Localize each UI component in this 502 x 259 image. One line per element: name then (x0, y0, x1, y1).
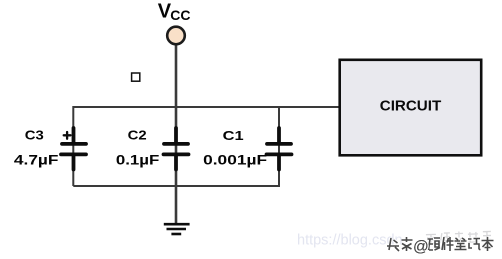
svg-text:CC: CC (170, 7, 190, 23)
svg-text:C3: C3 (25, 128, 44, 143)
svg-text:0.001µF: 0.001µF (203, 152, 267, 167)
svg-text:CIRCUIT: CIRCUIT (380, 99, 442, 115)
svg-text:0.1µF: 0.1µF (116, 152, 160, 167)
svg-text:C2: C2 (128, 128, 147, 143)
svg-text:4.7µF: 4.7µF (14, 152, 59, 167)
svg-text:@: @ (413, 239, 429, 256)
svg-text:C1: C1 (223, 128, 244, 143)
